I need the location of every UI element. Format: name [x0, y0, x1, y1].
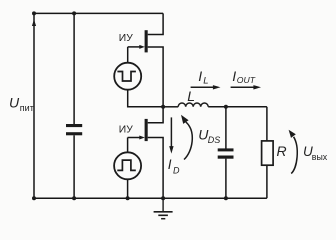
arrow ID [169, 117, 173, 153]
node bottom-left junction [32, 196, 36, 200]
wire Q1 drain drop [148, 13, 163, 34]
wire top rail [34, 12, 163, 14]
node output cap top junction [224, 105, 228, 109]
svg-text:L: L [187, 88, 195, 104]
label Uvyh [303, 144, 328, 162]
wire input capacitor branch bottom [73, 135, 75, 198]
wire V2 bottom lead [127, 179, 129, 198]
arrow Uvyh curved [289, 130, 298, 174]
wire output capacitor branch top [225, 107, 227, 149]
svg-text:ИУ: ИУ [119, 33, 133, 44]
wire Q1 source to mid node [148, 47, 163, 107]
wire mid node to inductor [163, 106, 178, 108]
svg-text:D: D [173, 166, 180, 176]
wire Q2 gate lead [128, 137, 141, 139]
node supply top-left junction [32, 11, 36, 15]
label UDS [198, 127, 220, 145]
arrow Upit direction [32, 19, 36, 26]
svg-text:ИУ: ИУ [119, 125, 133, 136]
svg-text:I: I [168, 157, 172, 172]
node V2 bottom junction [126, 196, 130, 200]
label Upit [9, 95, 34, 113]
svg-text:R: R [277, 143, 287, 159]
label ID [168, 157, 180, 176]
wire left supply vertical [33, 13, 35, 198]
wire load branch top [266, 107, 268, 141]
label IU upper driver [119, 33, 133, 44]
wire output capacitor branch bottom [225, 159, 227, 199]
wire inductor to output corner [208, 106, 267, 108]
label L value [187, 88, 195, 104]
svg-text:U: U [9, 95, 20, 111]
node mid switching junction [161, 105, 165, 109]
resistor R [262, 141, 274, 165]
node input cap bottom junction [72, 196, 76, 200]
label IU lower driver [119, 125, 133, 136]
wire load branch bottom [266, 165, 268, 198]
pulse source V2 [114, 152, 141, 179]
transistor Q2 [139, 119, 147, 141]
svg-text:OUT: OUT [237, 75, 256, 85]
svg-text:I: I [198, 68, 202, 84]
svg-text:вых: вых [312, 152, 328, 162]
svg-text:L: L [203, 76, 208, 87]
capacitor C2 output [218, 148, 234, 158]
label IL [198, 68, 208, 87]
transistor Q1 [139, 30, 147, 52]
wire bottom rail [34, 197, 267, 199]
pulse source V1 [114, 63, 141, 90]
label R value [277, 143, 287, 159]
wire input capacitor branch top [73, 13, 75, 124]
node ground junction [161, 196, 165, 200]
wire Q2 drain drop [148, 107, 163, 123]
node output cap bottom junction [224, 196, 228, 200]
label IOUT [232, 68, 255, 85]
arrow UDS curved [181, 115, 192, 160]
arrow IOUT [231, 85, 261, 89]
wire V1 top lead [127, 47, 129, 63]
wire V2 top lead [127, 138, 129, 153]
svg-text:пит: пит [20, 103, 34, 113]
node input cap top junction [72, 11, 76, 15]
arrow IL [191, 85, 221, 89]
inductor L [178, 103, 208, 107]
capacitor C1 input [66, 124, 82, 135]
wire V1 bottom lead to mid node [128, 90, 163, 107]
wire Q2 source to ground rail [148, 138, 163, 199]
svg-text:I: I [232, 68, 236, 84]
svg-text:DS: DS [208, 135, 221, 145]
ground [154, 198, 173, 219]
wire Q1 gate lead [128, 46, 141, 48]
